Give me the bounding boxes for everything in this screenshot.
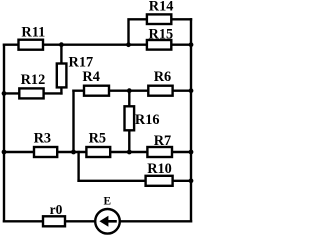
resistor R7 xyxy=(147,133,172,157)
wire R3-R5-R7 row xyxy=(4,151,191,153)
node R12 left junction xyxy=(2,91,7,96)
svg-text:R12: R12 xyxy=(21,72,46,88)
svg-text:R5: R5 xyxy=(89,131,106,147)
svg-text:R15: R15 xyxy=(149,27,174,43)
resistor R5 xyxy=(86,131,110,157)
svg-text:R4: R4 xyxy=(82,69,99,85)
svg-text:R10: R10 xyxy=(147,161,172,177)
resistor R14 xyxy=(147,0,174,24)
svg-text:R11: R11 xyxy=(21,25,45,41)
svg-text:R7: R7 xyxy=(154,133,171,149)
wire R10 vertical xyxy=(77,152,79,181)
svg-text:R6: R6 xyxy=(154,69,171,85)
node R6 right junction xyxy=(189,88,194,93)
svg-text:R14: R14 xyxy=(149,0,174,15)
wire top bus xyxy=(4,44,191,46)
resistor R3 xyxy=(34,131,58,157)
wire left bus xyxy=(3,45,5,222)
wire right bus xyxy=(190,19,192,221)
wire R12 row xyxy=(4,92,61,94)
wire bottom xyxy=(4,220,191,222)
resistor R12 xyxy=(19,72,45,98)
resistor r0 xyxy=(43,202,65,226)
svg-text:E: E xyxy=(104,196,112,208)
wire R16 vertical xyxy=(128,91,130,152)
source E xyxy=(95,196,120,234)
resistor R15 xyxy=(147,27,173,50)
node R7 right junction xyxy=(189,150,194,155)
resistor R4 xyxy=(82,69,109,96)
node R17 top junction xyxy=(59,42,64,47)
node R10 right junction xyxy=(189,178,194,183)
wire R10 row xyxy=(79,180,191,182)
svg-text:r0: r0 xyxy=(50,202,63,217)
resistor R17 xyxy=(57,55,93,88)
resistor R16 xyxy=(125,106,160,130)
node R16 top junction xyxy=(127,88,132,93)
node mid-left bottom junction xyxy=(71,150,76,155)
node R3 left junction xyxy=(2,150,7,155)
wire R14 branch xyxy=(129,19,192,44)
wire R4-R6 row xyxy=(74,89,192,91)
resistor R11 xyxy=(19,25,46,50)
node R16 bottom junction xyxy=(127,150,132,155)
svg-text:R3: R3 xyxy=(34,131,51,147)
resistor R10 xyxy=(146,161,173,186)
wire R17 vertical xyxy=(60,45,62,94)
resistor R6 xyxy=(148,69,172,96)
wire mid-left vertical xyxy=(72,91,74,152)
node R14 branch left junction xyxy=(126,42,131,47)
svg-text:R16: R16 xyxy=(135,112,160,128)
node R15 right junction xyxy=(189,42,194,47)
